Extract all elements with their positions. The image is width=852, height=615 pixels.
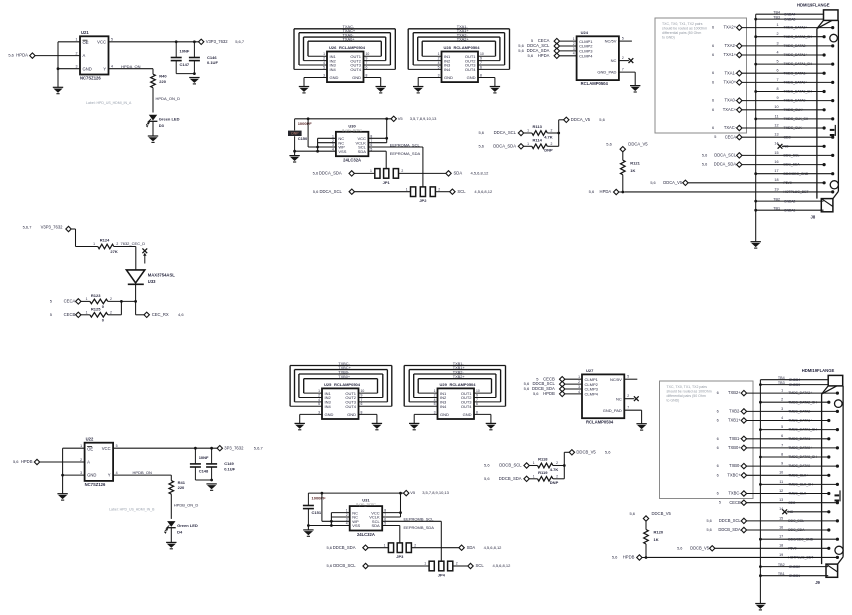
svg-text:6: 6 xyxy=(480,65,482,69)
svg-text:6: 6 xyxy=(717,391,719,395)
svg-text:HDMI19FLANGE: HDMI19FLANGE xyxy=(802,368,835,373)
svg-text:RCLAMP0504: RCLAMP0504 xyxy=(339,45,366,50)
svg-text:SCL: SCL xyxy=(457,189,466,194)
svg-text:2: 2 xyxy=(456,562,458,566)
svg-text:TXA0-: TXA0- xyxy=(724,98,736,103)
svg-text:TXA2+: TXA2+ xyxy=(457,37,470,42)
svg-text:220: 220 xyxy=(178,485,185,490)
svg-text:24LC32A: 24LC32A xyxy=(343,158,361,163)
svg-text:10: 10 xyxy=(476,389,480,393)
svg-text:R120: R120 xyxy=(654,530,664,535)
svg-text:SDA: SDA xyxy=(358,149,367,154)
svg-text:6: 6 xyxy=(717,492,719,496)
svg-text:18: 18 xyxy=(779,544,783,548)
svg-text:4: 4 xyxy=(346,522,348,526)
svg-text:11: 11 xyxy=(775,114,779,118)
svg-text:D3: D3 xyxy=(159,123,165,128)
svg-text:3: 3 xyxy=(323,73,325,77)
svg-text:2: 2 xyxy=(414,543,416,547)
svg-text:10: 10 xyxy=(774,105,778,109)
svg-text:C146: C146 xyxy=(207,55,217,60)
svg-text:10NF: 10NF xyxy=(180,49,190,54)
svg-text:IN4: IN4 xyxy=(444,67,451,72)
svg-text:HPDB: HPDB xyxy=(21,459,33,464)
svg-text:OUT4: OUT4 xyxy=(345,404,356,409)
svg-text:DNP: DNP xyxy=(550,480,559,485)
svg-text:1: 1 xyxy=(370,169,372,173)
svg-text:C151: C151 xyxy=(312,510,322,515)
svg-text:HPDA: HPDA xyxy=(600,189,612,194)
svg-text:U33: U33 xyxy=(148,279,156,284)
svg-text:18: 18 xyxy=(774,178,778,182)
svg-text:3: 3 xyxy=(781,407,783,411)
svg-text:5,6,7: 5,6,7 xyxy=(254,445,264,450)
svg-text:TXAC-: TXAC- xyxy=(724,125,737,130)
svg-text:Green LED: Green LED xyxy=(159,116,180,121)
svg-text:6: 6 xyxy=(717,464,719,468)
svg-text:SDA: SDA xyxy=(454,171,463,176)
svg-text:differential pairs (50 Ohm: differential pairs (50 Ohm xyxy=(662,31,701,35)
svg-text:2: 2 xyxy=(551,142,553,146)
svg-text:V5: V5 xyxy=(410,490,416,495)
svg-text:GND_PAD: GND_PAD xyxy=(603,408,622,413)
svg-text:TXC, TX0, TX1, TX2 pairs: TXC, TX0, TX1, TX2 pairs xyxy=(662,22,703,26)
svg-text:R121: R121 xyxy=(630,160,640,165)
svg-text:TB4: TB4 xyxy=(778,376,785,380)
svg-text:16: 16 xyxy=(774,160,778,164)
svg-text:GND: GND xyxy=(463,412,472,417)
svg-text:1: 1 xyxy=(781,388,783,392)
svg-text:4,5,6,8,12: 4,5,6,8,12 xyxy=(484,545,503,550)
svg-text:J8: J8 xyxy=(811,214,816,219)
svg-text:GND: GND xyxy=(83,66,92,71)
svg-text:7: 7 xyxy=(480,61,482,65)
svg-text:3P3_7632: 3P3_7632 xyxy=(224,445,244,450)
svg-text:TXB2+: TXB2+ xyxy=(728,390,741,395)
svg-text:R40: R40 xyxy=(159,73,167,78)
svg-text:3: 3 xyxy=(573,47,575,51)
svg-text:0.1UF: 0.1UF xyxy=(224,466,235,471)
svg-text:VSS: VSS xyxy=(338,149,346,154)
svg-text:3: 3 xyxy=(578,385,580,389)
svg-text:2: 2 xyxy=(76,51,78,55)
svg-text:2: 2 xyxy=(116,242,118,246)
svg-text:5,6: 5,6 xyxy=(605,449,611,454)
svg-text:U26: U26 xyxy=(329,45,337,50)
svg-text:1: 1 xyxy=(86,297,88,301)
svg-text:GNDA1: GNDA1 xyxy=(784,208,796,212)
svg-text:to GND): to GND) xyxy=(662,36,675,40)
svg-text:DNP: DNP xyxy=(544,148,553,153)
svg-text:1: 1 xyxy=(573,37,575,41)
svg-text:6: 6 xyxy=(781,434,783,438)
svg-text:TXA1+: TXA1+ xyxy=(723,52,736,57)
svg-text:6: 6 xyxy=(717,419,719,423)
svg-text:3,5,7,8,9,10,13: 3,5,7,8,9,10,13 xyxy=(422,490,449,495)
svg-text:TB2: TB2 xyxy=(778,563,785,567)
svg-text:DDCB_SCL: DDCB_SCL xyxy=(333,563,356,568)
svg-text:EEPROMA_SDA: EEPROMA_SDA xyxy=(390,151,421,156)
svg-text:U29: U29 xyxy=(440,382,448,387)
svg-text:4: 4 xyxy=(323,61,325,65)
svg-text:1: 1 xyxy=(434,389,436,393)
svg-text:8: 8 xyxy=(480,73,482,77)
svg-text:6: 6 xyxy=(712,44,714,48)
svg-text:5,6: 5,6 xyxy=(629,511,635,516)
svg-text:1: 1 xyxy=(578,375,580,379)
svg-text:R41: R41 xyxy=(178,480,186,485)
svg-text:DDCA_V5: DDCA_V5 xyxy=(628,142,648,147)
svg-text:RCLAMP0504: RCLAMP0504 xyxy=(586,419,614,424)
svg-text:1: 1 xyxy=(776,23,778,27)
svg-text:4: 4 xyxy=(781,416,783,420)
svg-text:6: 6 xyxy=(712,53,714,57)
svg-text:TB1: TB1 xyxy=(773,206,780,210)
svg-text:JP2: JP2 xyxy=(419,198,427,203)
svg-text:5,6: 5,6 xyxy=(612,555,618,560)
svg-text:NC: NC xyxy=(616,396,622,401)
svg-text:5,6: 5,6 xyxy=(8,53,14,58)
svg-text:3: 3 xyxy=(76,64,78,68)
svg-text:2: 2 xyxy=(401,169,403,173)
svg-text:10NF: 10NF xyxy=(199,455,209,460)
svg-text:TXA2+: TXA2+ xyxy=(723,25,736,30)
svg-text:1: 1 xyxy=(384,543,386,547)
svg-text:4: 4 xyxy=(578,390,580,394)
svg-text:R119: R119 xyxy=(538,470,548,475)
svg-text:5,6: 5,6 xyxy=(13,459,19,464)
svg-text:1: 1 xyxy=(323,52,325,56)
svg-text:Label: HPD_US_HDMI_IN_A: Label: HPD_US_HDMI_IN_A xyxy=(86,101,132,105)
svg-text:4: 4 xyxy=(111,64,113,68)
svg-text:DDCA_SCL: DDCA_SCL xyxy=(494,130,517,135)
svg-text:8: 8 xyxy=(366,73,368,77)
svg-text:GNDA4: GNDA4 xyxy=(784,12,796,16)
svg-text:CECA: CECA xyxy=(64,299,76,304)
svg-text:OE: OE xyxy=(87,446,93,451)
svg-text:5: 5 xyxy=(318,402,320,406)
svg-text:HPDA_ON_D: HPDA_ON_D xyxy=(156,96,181,101)
svg-text:2: 2 xyxy=(110,310,112,314)
svg-text:6: 6 xyxy=(476,402,478,406)
svg-text:5,6,7: 5,6,7 xyxy=(23,225,33,230)
svg-text:2: 2 xyxy=(622,56,624,60)
svg-text:15: 15 xyxy=(774,151,778,155)
svg-text:TXA1-: TXA1- xyxy=(724,70,736,75)
svg-text:DDCB_V5: DDCB_V5 xyxy=(652,511,672,516)
svg-text:NC7SZ126: NC7SZ126 xyxy=(80,75,101,80)
svg-text:4.7K: 4.7K xyxy=(544,134,553,139)
svg-text:6: 6 xyxy=(361,402,363,406)
svg-text:2: 2 xyxy=(323,56,325,60)
svg-text:EEPROMA_SCL: EEPROMA_SCL xyxy=(390,142,421,147)
svg-text:TXA0+: TXA0+ xyxy=(723,79,736,84)
svg-text:CECA: CECA xyxy=(725,134,737,139)
svg-text:GND: GND xyxy=(87,473,96,478)
svg-text:TXB0+: TXB0+ xyxy=(338,374,351,379)
svg-text:10: 10 xyxy=(361,389,365,393)
svg-text:1: 1 xyxy=(424,562,426,566)
svg-text:Y: Y xyxy=(108,473,111,478)
svg-text:5: 5 xyxy=(111,38,113,42)
svg-text:GND: GND xyxy=(352,75,361,80)
svg-text:TXB2+: TXB2+ xyxy=(453,374,466,379)
svg-text:DDCB_SCL: DDCB_SCL xyxy=(499,463,522,468)
svg-text:Green LED: Green LED xyxy=(177,523,198,528)
svg-text:1: 1 xyxy=(318,389,320,393)
svg-text:DNP: DNP xyxy=(291,131,299,135)
svg-text:C149: C149 xyxy=(224,461,234,466)
svg-text:6: 6 xyxy=(776,69,778,73)
svg-text:1: 1 xyxy=(93,242,95,246)
svg-text:5,6: 5,6 xyxy=(518,48,524,53)
svg-text:CLMP4: CLMP4 xyxy=(585,392,599,397)
svg-text:7: 7 xyxy=(776,78,778,82)
svg-text:GND: GND xyxy=(325,412,334,417)
svg-text:SDA: SDA xyxy=(467,545,476,550)
svg-text:8: 8 xyxy=(781,452,783,456)
svg-text:SCL: SCL xyxy=(476,563,485,568)
svg-text:24LC32A: 24LC32A xyxy=(357,532,375,537)
svg-text:TXB0-: TXB0- xyxy=(729,463,741,468)
svg-text:TB4: TB4 xyxy=(773,10,780,14)
svg-text:DDCA_SDA: DDCA_SDA xyxy=(714,162,737,167)
svg-text:5,6: 5,6 xyxy=(533,391,539,396)
svg-text:5,6: 5,6 xyxy=(484,476,490,481)
svg-text:8: 8 xyxy=(776,87,778,91)
svg-text:5: 5 xyxy=(627,375,629,379)
svg-text:8-pin_SOIC: 8-pin_SOIC xyxy=(342,128,362,132)
svg-text:EEPROMB_SDA: EEPROMB_SDA xyxy=(404,525,435,530)
svg-text:2: 2 xyxy=(627,394,629,398)
svg-text:5: 5 xyxy=(323,65,325,69)
svg-text:DDCA_SCL: DDCA_SCL xyxy=(319,189,342,194)
svg-text:220: 220 xyxy=(159,79,166,84)
svg-text:HPDA_ON: HPDA_ON xyxy=(121,64,140,69)
svg-text:5,6: 5,6 xyxy=(524,386,530,391)
svg-text:DDCB_SDA: DDCB_SDA xyxy=(333,545,356,550)
svg-text:RCLAMP0504: RCLAMP0504 xyxy=(581,81,609,86)
svg-text:2: 2 xyxy=(80,458,82,462)
svg-text:DDCA_SDA: DDCA_SDA xyxy=(493,143,516,148)
svg-text:DDCB_SDA: DDCB_SDA xyxy=(718,527,741,532)
svg-text:6: 6 xyxy=(712,108,714,112)
svg-text:11: 11 xyxy=(779,480,783,484)
svg-text:TXA2-: TXA2- xyxy=(724,43,736,48)
svg-text:JP4: JP4 xyxy=(438,572,446,577)
svg-text:4,5,6,8,12: 4,5,6,8,12 xyxy=(471,170,490,175)
svg-text:2: 2 xyxy=(573,42,575,46)
svg-text:R123: R123 xyxy=(91,293,101,298)
svg-text:OE: OE xyxy=(83,40,89,45)
svg-text:6: 6 xyxy=(717,437,719,441)
svg-text:TB3: TB3 xyxy=(778,381,785,385)
svg-text:GNDB1: GNDB1 xyxy=(789,574,801,578)
svg-text:V3P3_7632: V3P3_7632 xyxy=(41,225,64,230)
svg-text:A: A xyxy=(87,460,90,465)
svg-text:OUT4: OUT4 xyxy=(350,67,361,72)
svg-text:2: 2 xyxy=(578,380,580,384)
svg-text:17: 17 xyxy=(779,535,783,539)
svg-text:Label: HPD_US_HDMI_IN_B: Label: HPD_US_HDMI_IN_B xyxy=(109,508,155,512)
svg-text:4: 4 xyxy=(116,471,118,475)
svg-text:GND: GND xyxy=(330,75,339,80)
svg-text:7: 7 xyxy=(361,398,363,402)
svg-text:8: 8 xyxy=(361,410,363,414)
svg-text:4: 4 xyxy=(776,50,778,54)
svg-text:should be routed as 100Ohm: should be routed as 100Ohm xyxy=(662,27,707,31)
svg-text:3: 3 xyxy=(776,41,778,45)
svg-text:2: 2 xyxy=(318,393,320,397)
svg-text:5,6: 5,6 xyxy=(327,563,333,568)
svg-text:5: 5 xyxy=(781,425,783,429)
svg-text:5,6: 5,6 xyxy=(707,528,712,532)
svg-text:3: 3 xyxy=(318,410,320,414)
svg-text:1: 1 xyxy=(406,187,408,191)
svg-text:CEC_RX: CEC_RX xyxy=(152,312,169,317)
svg-text:A: A xyxy=(83,53,86,58)
svg-text:DDCA_SDA: DDCA_SDA xyxy=(319,171,342,176)
svg-text:differential pairs (50 Ohm: differential pairs (50 Ohm xyxy=(667,394,706,398)
svg-text:5,6: 5,6 xyxy=(702,163,707,167)
svg-text:1: 1 xyxy=(80,444,82,448)
svg-text:JP1: JP1 xyxy=(383,180,391,185)
svg-text:6: 6 xyxy=(717,446,719,450)
svg-text:U27: U27 xyxy=(586,368,594,373)
svg-text:5: 5 xyxy=(622,37,624,41)
svg-text:EEPROMB_SCL: EEPROMB_SCL xyxy=(404,517,435,522)
svg-text:1: 1 xyxy=(332,134,334,138)
svg-text:6: 6 xyxy=(366,65,368,69)
svg-text:RCLAMP0504: RCLAMP0504 xyxy=(334,382,361,387)
svg-text:DDCB_V5: DDCB_V5 xyxy=(576,449,596,454)
svg-text:MAX3754ASL: MAX3754ASL xyxy=(148,272,175,277)
svg-text:1: 1 xyxy=(346,509,348,513)
svg-text:6: 6 xyxy=(717,409,719,413)
svg-text:C148: C148 xyxy=(199,468,209,473)
svg-text:5: 5 xyxy=(438,65,440,69)
svg-text:U21: U21 xyxy=(81,30,89,35)
svg-text:17: 17 xyxy=(774,169,778,173)
svg-text:7: 7 xyxy=(781,443,783,447)
svg-text:J9: J9 xyxy=(815,580,820,585)
svg-text:4,6: 4,6 xyxy=(178,312,184,317)
svg-text:TXC, TX0, TX1, TX2 pairs: TXC, TX0, TX1, TX2 pairs xyxy=(667,385,708,389)
svg-text:DDCB_V5: DDCB_V5 xyxy=(690,545,710,550)
svg-text:TB1: TB1 xyxy=(778,572,785,576)
svg-text:TXAC+: TXAC+ xyxy=(723,107,737,112)
svg-text:Y: Y xyxy=(103,66,106,71)
svg-text:to GND): to GND) xyxy=(667,399,680,403)
svg-text:1: 1 xyxy=(438,52,440,56)
svg-text:5,6: 5,6 xyxy=(589,189,595,194)
svg-text:2: 2 xyxy=(110,297,112,301)
svg-text:12: 12 xyxy=(774,123,778,127)
svg-text:GND: GND xyxy=(467,75,476,80)
svg-text:3: 3 xyxy=(434,410,436,414)
svg-text:NC7SZ126: NC7SZ126 xyxy=(85,482,106,487)
svg-text:10: 10 xyxy=(366,52,370,56)
svg-text:2: 2 xyxy=(556,474,558,478)
svg-text:6: 6 xyxy=(712,99,714,103)
svg-text:1: 1 xyxy=(533,474,535,478)
svg-text:TXBC+: TXBC+ xyxy=(727,472,741,477)
svg-text:6: 6 xyxy=(712,126,714,130)
svg-text:5,6: 5,6 xyxy=(528,53,534,58)
svg-text:4: 4 xyxy=(573,52,575,56)
svg-text:4,5,6,8,12: 4,5,6,8,12 xyxy=(493,563,512,568)
svg-text:HPDB_ON: HPDB_ON xyxy=(133,470,152,475)
svg-text:5,6,7: 5,6,7 xyxy=(235,39,245,44)
svg-text:5: 5 xyxy=(116,444,118,448)
svg-text:DDCA_V5: DDCA_V5 xyxy=(571,117,591,122)
svg-text:7: 7 xyxy=(476,398,478,402)
svg-text:5,6: 5,6 xyxy=(313,189,319,194)
svg-text:CECB: CECB xyxy=(729,500,741,505)
svg-text:TXB0+: TXB0+ xyxy=(728,445,741,450)
svg-text:1000PF: 1000PF xyxy=(298,121,313,126)
svg-text:1K: 1K xyxy=(654,537,659,542)
svg-text:TXBC-: TXBC- xyxy=(728,491,741,496)
svg-text:2: 2 xyxy=(556,461,558,465)
svg-text:GND: GND xyxy=(444,75,453,80)
svg-text:D4: D4 xyxy=(177,529,183,534)
svg-text:9: 9 xyxy=(776,96,778,100)
svg-text:9: 9 xyxy=(366,56,368,60)
svg-text:19: 19 xyxy=(774,187,778,191)
svg-text:VCC: VCC xyxy=(102,446,111,451)
svg-text:4,5,6,8,12: 4,5,6,8,12 xyxy=(474,189,493,194)
svg-text:GNDB2: GNDB2 xyxy=(789,565,801,569)
svg-text:IN4: IN4 xyxy=(330,67,337,72)
svg-text:2: 2 xyxy=(781,398,783,402)
svg-text:6: 6 xyxy=(712,26,714,30)
svg-text:9: 9 xyxy=(480,56,482,60)
svg-text:TXB1-: TXB1- xyxy=(729,436,741,441)
svg-text:TB2: TB2 xyxy=(773,197,780,201)
svg-text:6: 6 xyxy=(717,473,719,477)
svg-text:NC: NC xyxy=(611,58,617,63)
svg-text:3: 3 xyxy=(80,471,82,475)
svg-text:1: 1 xyxy=(533,461,535,465)
svg-text:R125: R125 xyxy=(91,306,101,311)
svg-text:OUT4: OUT4 xyxy=(461,404,472,409)
svg-text:TB3: TB3 xyxy=(773,15,780,19)
svg-text:4.7K: 4.7K xyxy=(550,467,559,472)
svg-text:15: 15 xyxy=(779,516,783,520)
svg-text:10: 10 xyxy=(480,52,484,56)
svg-text:4: 4 xyxy=(434,398,436,402)
svg-text:CLMP4: CLMP4 xyxy=(579,53,593,58)
svg-text:3: 3 xyxy=(438,73,440,77)
svg-text:5,6: 5,6 xyxy=(606,142,612,147)
svg-text:6: 6 xyxy=(712,80,714,84)
svg-text:R118: R118 xyxy=(538,457,548,462)
svg-text:7: 7 xyxy=(366,61,368,65)
svg-text:IN4: IN4 xyxy=(325,404,332,409)
svg-text:DDCB_SDA: DDCB_SDA xyxy=(499,476,522,481)
svg-text:HPDB_ON_D: HPDB_ON_D xyxy=(174,502,199,507)
svg-text:1000PF: 1000PF xyxy=(312,495,327,500)
svg-text:SDA: SDA xyxy=(371,523,380,528)
svg-text:GNDA3: GNDA3 xyxy=(784,17,796,21)
svg-text:4: 4 xyxy=(318,398,320,402)
svg-text:9: 9 xyxy=(361,393,363,397)
svg-text:4: 4 xyxy=(332,147,334,151)
svg-text:C150: C150 xyxy=(298,136,308,141)
svg-text:should be routed as 100Ohm: should be routed as 100Ohm xyxy=(667,390,712,394)
svg-text:5: 5 xyxy=(714,135,716,139)
